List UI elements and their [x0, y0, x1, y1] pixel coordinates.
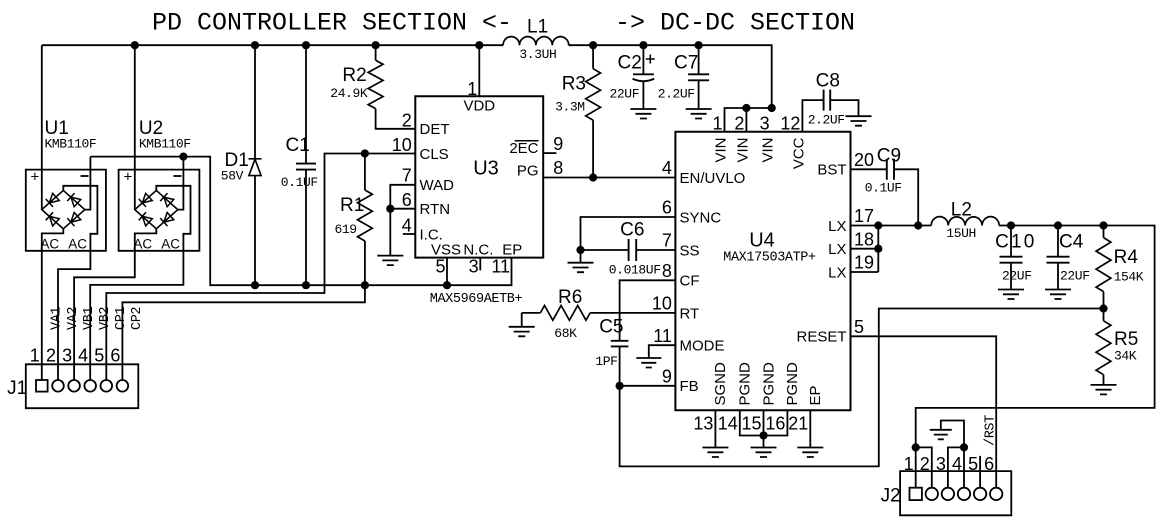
- wire net VA2: [58, 186, 97, 380]
- wire U3 IC stub: [403, 233, 415, 235]
- junction VOUT R4: [1099, 221, 1107, 229]
- svg-text:6: 6: [402, 190, 412, 210]
- svg-text:4: 4: [402, 215, 412, 235]
- junction VSS R1: [361, 281, 369, 289]
- junction C9 LX: [914, 221, 922, 229]
- capacitor C4 22UF: [1057, 226, 1059, 290]
- svg-text:2.2UF: 2.2UF: [658, 87, 695, 102]
- ground SGND: [702, 448, 728, 458]
- svg-text:58V: 58V: [221, 169, 244, 184]
- svg-text:3: 3: [62, 346, 72, 366]
- capacitor C10 22UF: [1010, 226, 1012, 290]
- svg-text:12: 12: [780, 114, 800, 134]
- svg-text:4: 4: [952, 454, 962, 474]
- junction rail U2: [131, 41, 139, 49]
- junction LX17: [874, 221, 882, 229]
- svg-text:PGND: PGND: [737, 362, 754, 406]
- wire EP pin21: [809, 410, 811, 447]
- ground C8: [846, 116, 872, 126]
- junction U2 minus: [179, 153, 187, 161]
- capacitor C6 0.018UF: [581, 250, 676, 263]
- svg-text:22UF: 22UF: [1060, 269, 1090, 284]
- wire FB: [620, 309, 1104, 467]
- wire VOUT: [916, 226, 1155, 488]
- capacitor C1 0.1UF: [305, 45, 307, 285]
- svg-text:2: 2: [402, 111, 412, 131]
- wire SYNC: [581, 217, 676, 250]
- svg-text:2: 2: [734, 114, 744, 134]
- junction VOUT C10: [1007, 221, 1015, 229]
- svg-text:6: 6: [662, 198, 672, 218]
- svg-text:6: 6: [984, 454, 994, 474]
- svg-text:4: 4: [78, 346, 88, 366]
- svg-text:RT: RT: [680, 305, 700, 322]
- ground C2: [630, 109, 656, 119]
- svg-text:3.3UH: 3.3UH: [519, 47, 556, 62]
- svg-text:154K: 154K: [1114, 269, 1144, 284]
- junction rail R2: [372, 41, 380, 49]
- ground C10: [998, 290, 1024, 300]
- bridge rectifier U1: [26, 170, 106, 251]
- ground C7: [686, 109, 712, 119]
- svg-text:17: 17: [854, 206, 874, 226]
- svg-text:AC: AC: [68, 237, 87, 252]
- svg-text:21: 21: [788, 414, 808, 434]
- wire MODE: [649, 345, 676, 358]
- svg-text:0.1UF: 0.1UF: [865, 181, 902, 196]
- resistor R2 24.9K: [376, 45, 416, 129]
- svg-text:CF: CF: [680, 273, 700, 290]
- svg-text:KMB110F: KMB110F: [139, 137, 191, 152]
- svg-text:R1: R1: [340, 195, 364, 216]
- diode D1 58V: [254, 45, 256, 285]
- svg-text:RESET: RESET: [796, 329, 846, 346]
- op-amp U3 MAX5969AETB+: [415, 96, 543, 257]
- resistor R5 34K: [1103, 309, 1105, 385]
- junction rail C1: [302, 41, 310, 49]
- resistor R3 3.3M: [592, 45, 594, 177]
- svg-text:J2: J2: [881, 486, 901, 507]
- svg-text:VCC: VCC: [790, 137, 807, 169]
- wire U3 2EC stub: [543, 152, 556, 154]
- junction rail C7: [695, 41, 703, 49]
- svg-text:VIN: VIN: [760, 138, 777, 163]
- wire J2 pin4 ground: [941, 421, 964, 488]
- junction RTN: [386, 205, 394, 213]
- wire net CP2: [122, 285, 365, 380]
- wire U2 plus to rail: [134, 45, 136, 209]
- wire U3 NC stub: [479, 258, 481, 271]
- svg-text:PGND: PGND: [784, 362, 801, 406]
- junction rail R3: [589, 41, 597, 49]
- ground C6: [568, 263, 594, 273]
- wire net VB2: [90, 186, 190, 380]
- svg-text:R2: R2: [342, 65, 366, 86]
- svg-text:19: 19: [854, 253, 874, 273]
- svg-text:8: 8: [553, 158, 563, 178]
- connector J2: [900, 471, 1011, 515]
- junction VIN2: [742, 104, 750, 112]
- svg-text:VIN: VIN: [713, 138, 730, 163]
- svg-text:R3: R3: [562, 74, 586, 95]
- capacitor C8 2.2UF: [802, 100, 858, 132]
- wire J2 pin2 tie: [916, 447, 932, 487]
- svg-text:20: 20: [854, 150, 874, 170]
- svg-text:15: 15: [741, 414, 761, 434]
- wire U3 WAD-RTN: [390, 185, 415, 256]
- svg-text:5: 5: [435, 257, 445, 277]
- wire LX pins: [851, 226, 932, 273]
- svg-text:9: 9: [553, 134, 563, 154]
- wire SGND pin13: [714, 410, 716, 447]
- capacitor C9 0.1UF: [851, 169, 919, 225]
- svg-text:14: 14: [718, 414, 738, 434]
- svg-text:C4: C4: [1059, 232, 1084, 253]
- svg-text:9: 9: [662, 367, 672, 387]
- svg-text:VA2: VA2: [66, 307, 81, 330]
- junction J2 pin1: [912, 443, 920, 451]
- wire PGND bracket: [740, 410, 788, 447]
- bridge rectifier U2: [119, 170, 200, 251]
- junction VSS C1: [302, 281, 310, 289]
- svg-text:J1: J1: [7, 378, 27, 399]
- svg-text:0.1UF: 0.1UF: [281, 175, 318, 190]
- junction VSS D1: [251, 281, 259, 289]
- inductor L2 15UH: [931, 217, 999, 226]
- wire U1 plus to rail: [41, 45, 43, 209]
- svg-text:16: 16: [765, 414, 785, 434]
- svg-text:LX: LX: [828, 264, 846, 281]
- svg-text:BST: BST: [817, 162, 846, 179]
- capacitor C5 1PF: [620, 280, 676, 386]
- junction R4 R5: [1099, 304, 1107, 312]
- wire net CP1: [106, 154, 415, 381]
- svg-text:1: 1: [712, 114, 722, 134]
- svg-text:R6: R6: [558, 287, 582, 308]
- svg-text:R4: R4: [1114, 247, 1139, 268]
- connector J1: [26, 364, 139, 408]
- svg-text:L2: L2: [951, 200, 972, 221]
- wire VIN bracket: [725, 108, 772, 132]
- svg-text:22UF: 22UF: [610, 87, 640, 102]
- resistor R6 68K: [522, 313, 676, 327]
- junction PGND: [759, 431, 767, 439]
- svg-text:7: 7: [402, 166, 412, 186]
- svg-text:1: 1: [904, 454, 914, 474]
- svg-text:C2: C2: [618, 53, 642, 74]
- wire J2 pin5 stub: [979, 456, 981, 488]
- svg-text:34K: 34K: [1114, 349, 1137, 364]
- svg-text:5: 5: [854, 317, 864, 337]
- op-amp U4 MAX17503ATP+: [675, 132, 850, 411]
- svg-text:KMB110F: KMB110F: [45, 137, 97, 152]
- svg-text:AC: AC: [133, 237, 152, 252]
- ground MODE: [636, 358, 661, 368]
- svg-text:-> DC-DC SECTION: -> DC-DC SECTION: [615, 9, 855, 38]
- svg-text:MAX17503ATP+: MAX17503ATP+: [723, 251, 816, 266]
- wire J2 pin3 tie: [948, 447, 964, 487]
- svg-text:VIN: VIN: [734, 138, 751, 163]
- svg-text:8: 8: [662, 261, 672, 281]
- svg-text:RTN: RTN: [420, 201, 451, 218]
- svg-text:SYNC: SYNC: [680, 209, 722, 226]
- svg-text:C6: C6: [620, 219, 644, 240]
- wire VDD rail: [42, 45, 772, 108]
- svg-text:619: 619: [335, 222, 357, 237]
- svg-text:EP: EP: [807, 385, 824, 405]
- svg-text:13: 13: [693, 414, 713, 434]
- svg-text:U4: U4: [749, 230, 775, 252]
- svg-text:3: 3: [760, 114, 770, 134]
- junction LX18: [874, 245, 882, 253]
- junction CLS R1: [361, 149, 369, 157]
- svg-text:VA1: VA1: [50, 307, 65, 330]
- inductor L1 3.3UH: [503, 37, 569, 46]
- svg-text:AC: AC: [40, 237, 59, 252]
- ground C4: [1045, 290, 1071, 300]
- svg-text:C7: C7: [674, 53, 698, 74]
- svg-text:CP1: CP1: [114, 307, 129, 330]
- junction SS: [576, 246, 584, 254]
- svg-text:CLS: CLS: [420, 146, 449, 163]
- svg-text:10: 10: [392, 135, 412, 155]
- ground R6: [509, 327, 535, 337]
- svg-text:SS: SS: [680, 242, 700, 259]
- svg-text:VDD: VDD: [463, 97, 495, 114]
- svg-text:R5: R5: [1114, 329, 1138, 350]
- wire net VA1: [42, 229, 64, 380]
- svg-text:1: 1: [30, 346, 40, 366]
- svg-text:DET: DET: [420, 121, 450, 138]
- svg-text:1: 1: [467, 79, 477, 99]
- wire U3 VDD pin1: [478, 45, 480, 96]
- svg-text:1PF: 1PF: [595, 354, 617, 369]
- wire VSS tie line: [90, 157, 511, 286]
- svg-text:2EC: 2EC: [509, 140, 538, 157]
- wire PG to EN/UVLO: [543, 177, 675, 179]
- svg-text:3: 3: [469, 257, 479, 277]
- svg-text:C10: C10: [995, 232, 1036, 253]
- svg-text:+: +: [124, 169, 133, 186]
- svg-text:+: +: [31, 169, 40, 186]
- svg-text:5: 5: [94, 346, 104, 366]
- svg-text:C1: C1: [286, 135, 310, 156]
- svg-text:LX: LX: [828, 241, 846, 258]
- svg-text:68K: 68K: [554, 326, 577, 341]
- ground RTN: [377, 256, 403, 266]
- junction VOUT C4: [1054, 221, 1062, 229]
- svg-text:15UH: 15UH: [946, 226, 976, 241]
- svg-text:EN/UVLO: EN/UVLO: [680, 170, 746, 187]
- svg-text:0.018UF: 0.018UF: [609, 262, 661, 277]
- wire net VB1: [74, 229, 156, 380]
- svg-text:22UF: 22UF: [1002, 269, 1032, 284]
- ground R5: [1091, 385, 1117, 395]
- svg-text:PD CONTROLLER SECTION <-: PD CONTROLLER SECTION <-: [152, 9, 512, 38]
- svg-text:CP2: CP2: [130, 307, 145, 330]
- ground J2: [930, 430, 952, 440]
- svg-text:MAX5969AETB+: MAX5969AETB+: [430, 292, 523, 307]
- svg-text:10: 10: [652, 294, 672, 314]
- svg-text:SGND: SGND: [712, 362, 729, 406]
- svg-text:AC: AC: [161, 237, 180, 252]
- svg-text:2: 2: [920, 454, 930, 474]
- svg-text:4: 4: [662, 158, 672, 178]
- svg-text:FB: FB: [680, 378, 699, 395]
- junction VSS pin5: [443, 281, 451, 289]
- junction rail C2: [639, 41, 647, 49]
- junction PG R3: [589, 173, 597, 181]
- svg-text:3: 3: [936, 454, 946, 474]
- svg-text:C9: C9: [877, 146, 901, 167]
- svg-text:VB1: VB1: [82, 307, 97, 330]
- svg-text:11: 11: [653, 326, 672, 346]
- svg-text:2: 2: [46, 346, 56, 366]
- capacitor C2 22UF: [642, 45, 644, 109]
- svg-text:MODE: MODE: [680, 338, 725, 355]
- resistor R4 154K: [1103, 226, 1105, 309]
- resistor R1 619: [364, 154, 366, 286]
- wire U3 VSS pin5: [446, 258, 448, 286]
- svg-text:C5: C5: [599, 317, 623, 338]
- junction rail VDD: [475, 41, 483, 49]
- junction FB: [616, 382, 624, 390]
- wire U2 minus: [178, 157, 184, 210]
- svg-text:VB2: VB2: [98, 307, 113, 330]
- wire U1 minus: [85, 157, 91, 210]
- svg-text:5: 5: [968, 454, 978, 474]
- svg-text:6: 6: [110, 346, 120, 366]
- svg-text:LX: LX: [828, 218, 846, 235]
- svg-text:24.9K: 24.9K: [330, 86, 368, 101]
- svg-text:2.2UF: 2.2UF: [808, 113, 845, 128]
- svg-text:PG: PG: [517, 163, 539, 180]
- svg-text:11: 11: [491, 257, 510, 277]
- svg-text:U3: U3: [473, 157, 499, 179]
- svg-text:7: 7: [662, 231, 672, 251]
- ground EP: [797, 448, 823, 458]
- svg-text:3.3M: 3.3M: [555, 100, 585, 115]
- capacitor C7 2.2UF: [698, 45, 700, 109]
- junction VIN3: [768, 104, 776, 112]
- svg-text:C8: C8: [816, 71, 840, 92]
- svg-text:/RST: /RST: [983, 415, 998, 446]
- ground PGND: [751, 448, 777, 458]
- svg-text:L1: L1: [527, 17, 548, 38]
- junction J2 pin4: [960, 443, 968, 451]
- svg-text:18: 18: [854, 229, 874, 249]
- svg-text:PGND: PGND: [760, 362, 777, 406]
- wire RESET to J2: [851, 336, 997, 487]
- svg-text:WAD: WAD: [420, 177, 455, 194]
- junction rail D1: [251, 41, 259, 49]
